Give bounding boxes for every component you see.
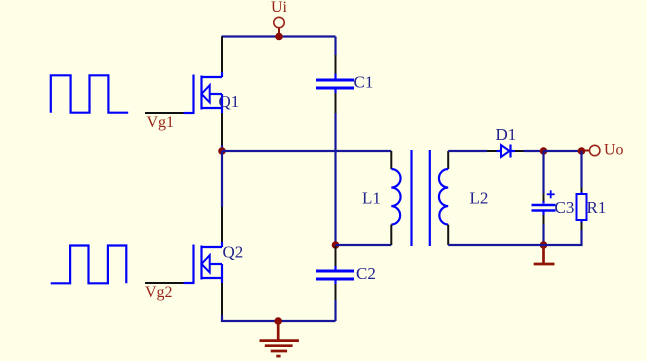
resistor R1 — [577, 194, 587, 220]
wire R1 to bottom rail — [544, 230, 582, 245]
wire middle rail — [222, 150, 391, 152]
wire C2 bottom pin black — [335, 284, 337, 300]
wire Q1 drain pin tip — [221, 72, 223, 77]
wire C3 node to R1 node — [544, 150, 582, 152]
wire bottom rail secondary — [448, 244, 543, 246]
wire top rail — [222, 35, 336, 37]
wire Q1 gate pin tip — [184, 112, 195, 114]
wire R1 top pin tip — [580, 192, 582, 194]
capacitor C1 — [316, 80, 354, 88]
ground secondary — [534, 245, 555, 264]
wire C1 branch top — [334, 37, 336, 56]
terminal Ui — [274, 17, 284, 34]
junction Ui node — [275, 33, 283, 41]
wire C1 bottom pin black — [335, 93, 337, 113]
wire Q1 drain pin — [221, 37, 223, 73]
transistor Q1 — [194, 75, 223, 114]
wire L2 bottom pin — [447, 225, 449, 245]
wire L1 bottom — [336, 244, 392, 246]
junction C3 bottom node — [540, 241, 548, 249]
capacitor C2 — [316, 271, 354, 279]
wire Q2 drain pin — [221, 207, 223, 242]
junction mid node — [218, 147, 226, 155]
junction C2 node — [332, 241, 340, 249]
wire Q1 source to mid node — [221, 145, 223, 151]
wire D1 cathode pin black — [515, 150, 524, 152]
wire L1 bottom pin — [390, 225, 392, 245]
terminal Uo — [585, 145, 600, 155]
square wave Vg2 — [51, 246, 127, 284]
wire D1 anode pin tip — [497, 150, 502, 152]
svg-text:Q2: Q2 — [223, 243, 244, 262]
wire C2 top pin — [335, 246, 337, 266]
junction C3 top node — [540, 147, 548, 155]
wire Q2 gate pin tip — [184, 282, 195, 284]
wire R1 branch upper — [580, 151, 582, 188]
wire C3 bottom pin — [542, 212, 544, 216]
svg-text:Ui: Ui — [271, 0, 288, 16]
square wave Vg1 — [51, 75, 128, 112]
wire D1 cathode pin — [512, 150, 516, 152]
wire C1 to C2 node — [334, 113, 336, 245]
capacitor C3 — [532, 205, 556, 211]
capacitor C3 plus sign — [547, 190, 555, 198]
wire Q1 gate pin — [145, 112, 184, 114]
wire mid node down — [221, 151, 223, 207]
wire D1 to C3 node — [524, 150, 544, 152]
wire C1 top pin tip — [334, 74, 336, 79]
transistor Q2 — [194, 245, 223, 284]
wire C3 top pin — [543, 194, 545, 202]
wire C3 top pin tip — [542, 201, 544, 204]
wire Q2 source pin — [221, 278, 223, 283]
wire L2 top to D1 — [448, 150, 487, 152]
wire Q1 source pin black — [221, 113, 223, 145]
svg-text:C2: C2 — [356, 264, 376, 283]
svg-text:C1: C1 — [354, 73, 374, 92]
svg-text:Vg1: Vg1 — [147, 114, 175, 131]
ground main — [260, 321, 299, 356]
svg-text:L1: L1 — [362, 189, 381, 208]
wire C1 bottom pin — [334, 90, 336, 94]
wire C2 top pin tip — [334, 266, 336, 270]
wire C3 to bottom node — [542, 224, 544, 245]
wire L1 top pin — [390, 151, 392, 169]
wire D1 anode pin — [487, 150, 497, 152]
wire Q2 gate pin — [145, 282, 184, 284]
svg-text:R1: R1 — [587, 198, 607, 217]
wire C2 to bottom rail — [334, 300, 336, 321]
svg-text:C3: C3 — [555, 198, 575, 217]
svg-text:Uo: Uo — [604, 142, 624, 159]
wire C1 top pin — [335, 55, 337, 74]
inductor L1 — [391, 169, 400, 225]
wire Q2 drain pin tip — [221, 242, 223, 247]
wire Q2 source pin black — [221, 283, 223, 315]
inductor L2 — [439, 169, 448, 225]
wire C2 bottom pin — [334, 281, 336, 285]
transformer core — [412, 150, 430, 246]
wire R1 bottom pin — [580, 220, 582, 223]
junction R1 top node — [578, 147, 586, 155]
junction ground node — [274, 317, 282, 325]
wire C3 branch upper — [542, 151, 544, 194]
wire L2 top pin — [447, 151, 449, 169]
diode D1 — [501, 145, 511, 158]
svg-text:D1: D1 — [496, 125, 517, 144]
svg-text:Vg2: Vg2 — [145, 284, 173, 301]
svg-text:L2: L2 — [470, 189, 489, 208]
wire R1 top pin — [581, 188, 583, 193]
wire Q2 source to bottom rail — [222, 315, 336, 321]
wire R1 bottom pin black — [581, 223, 583, 231]
wire C3 bottom pin black — [543, 215, 545, 224]
wire Q1 source pin — [221, 108, 223, 113]
